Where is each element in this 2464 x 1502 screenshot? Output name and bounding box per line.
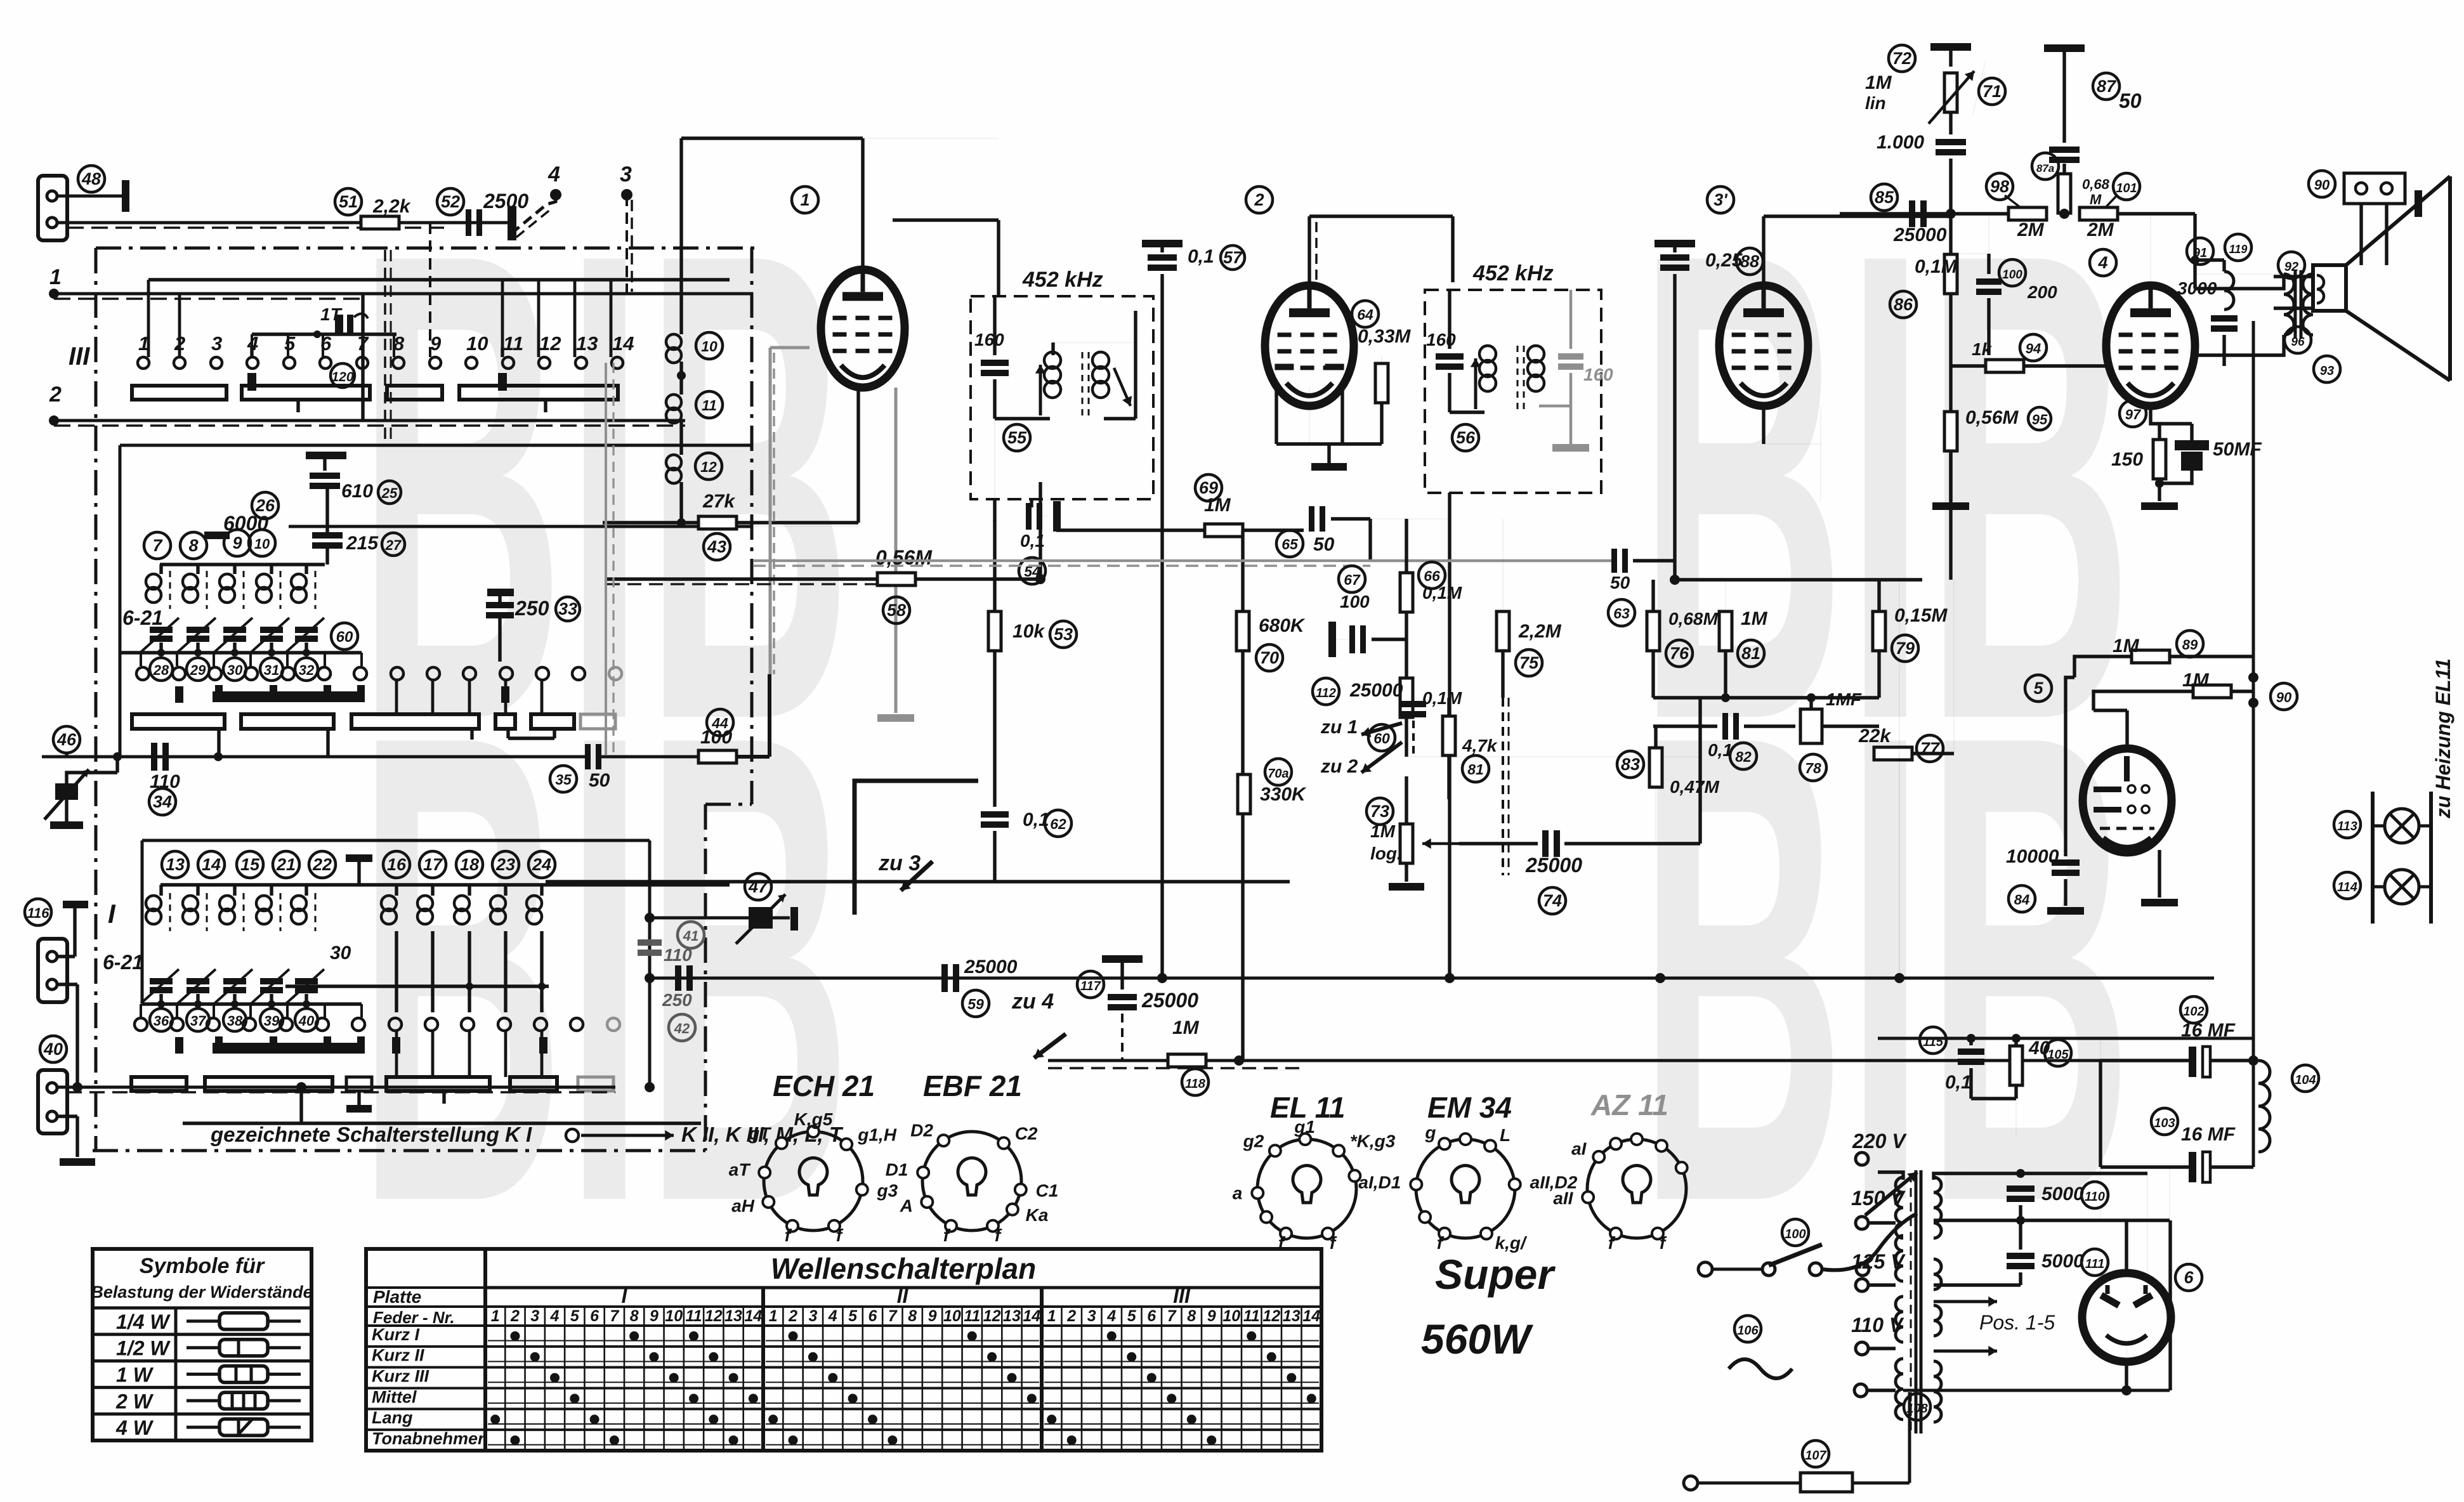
resistor R86 0.1M bbox=[1944, 254, 1957, 294]
svg-text:200: 200 bbox=[2027, 282, 2057, 302]
coil L10 bbox=[270, 565, 273, 574]
svg-text:6-21: 6-21 bbox=[103, 951, 143, 974]
coil L13 bbox=[159, 885, 162, 896]
wire bbox=[2118, 212, 2195, 215]
resistor R64 0.33M bbox=[1375, 363, 1388, 403]
svg-text:65: 65 bbox=[1281, 536, 1299, 552]
svg-text:30: 30 bbox=[227, 662, 243, 678]
wire bbox=[1840, 212, 2010, 215]
tube3 cathode network bbox=[1820, 406, 1821, 501]
dashed wire bbox=[1502, 698, 1504, 875]
node 4 bbox=[550, 189, 561, 200]
svg-text:II: II bbox=[897, 1284, 909, 1307]
svg-text:1: 1 bbox=[769, 1307, 778, 1325]
wire bbox=[863, 138, 999, 139]
antenna terminal bbox=[122, 180, 129, 212]
svg-text:56: 56 bbox=[1456, 428, 1476, 447]
gray wire (dial cord area) bbox=[753, 559, 1370, 562]
wire bbox=[1331, 517, 1370, 520]
svg-text:106: 106 bbox=[1737, 1324, 1759, 1338]
small tee bbox=[346, 1077, 372, 1091]
coil bus II bbox=[160, 563, 325, 566]
svg-text:40: 40 bbox=[298, 1013, 315, 1029]
coil L8 bbox=[196, 565, 199, 574]
contact blade marks bbox=[247, 373, 256, 391]
padder capacitor C35 50 bbox=[585, 744, 591, 769]
svg-text:a: a bbox=[1233, 1183, 1243, 1203]
capacitor C62 0.1 bbox=[981, 811, 1009, 818]
svg-text:14: 14 bbox=[1023, 1307, 1040, 1325]
coil L11 bbox=[305, 565, 308, 574]
svg-text:90: 90 bbox=[2276, 689, 2292, 705]
svg-text:93: 93 bbox=[2320, 364, 2334, 378]
contact trace row Kurz I group 1 bbox=[488, 1340, 761, 1342]
contact trace row Kurz III group 1 bbox=[488, 1381, 761, 1383]
capacitor C74 25000 bbox=[1542, 830, 1549, 857]
wire bbox=[2159, 471, 2192, 483]
svg-text:7: 7 bbox=[1167, 1307, 1177, 1325]
wire bbox=[1160, 294, 1163, 978]
svg-text:104: 104 bbox=[2295, 1073, 2316, 1087]
svg-text:12: 12 bbox=[705, 1307, 723, 1325]
grid cap bar bbox=[204, 532, 230, 539]
svg-text:64: 64 bbox=[1357, 306, 1373, 323]
svg-text:15: 15 bbox=[240, 855, 260, 874]
svg-text:105: 105 bbox=[2047, 1048, 2069, 1062]
wire B+ right bbox=[2252, 321, 2255, 1167]
svg-text:2: 2 bbox=[1066, 1307, 1076, 1325]
svg-text:3: 3 bbox=[620, 162, 632, 186]
svg-text:1/4 W: 1/4 W bbox=[116, 1310, 171, 1333]
wire bbox=[183, 1121, 701, 1125]
svg-text:27k: 27k bbox=[702, 491, 735, 512]
svg-text:0,1: 0,1 bbox=[1020, 531, 1045, 551]
svg-text:aI: aI bbox=[1571, 1139, 1587, 1158]
svg-text:73: 73 bbox=[1370, 802, 1389, 821]
resistor R81 1M bbox=[1719, 611, 1732, 651]
capacitor C96 50MF electrolytic bbox=[2175, 440, 2209, 450]
capacitor C103 16MF bbox=[2151, 1108, 2178, 1135]
wire bbox=[737, 521, 858, 524]
svg-text:BIB: BIB bbox=[1638, 596, 2133, 1340]
contact-to-wafer stubs II bbox=[395, 680, 398, 714]
wire bbox=[285, 984, 549, 988]
svg-text:160: 160 bbox=[1583, 365, 1613, 384]
svg-text:220 V: 220 V bbox=[1852, 1130, 1907, 1153]
svg-text:L: L bbox=[1500, 1125, 1511, 1145]
svg-text:9: 9 bbox=[928, 1307, 937, 1325]
svg-text:K,g5: K,g5 bbox=[794, 1109, 833, 1129]
capacitor C87 50 bbox=[2044, 44, 2085, 52]
speaker LS93 bbox=[2274, 275, 2313, 278]
variable capacitor C47 bbox=[745, 873, 771, 900]
svg-text:10: 10 bbox=[466, 332, 488, 355]
IF1 coils bbox=[995, 417, 1050, 420]
svg-text:97: 97 bbox=[2125, 407, 2142, 422]
wire bbox=[1675, 578, 1922, 581]
resistor R60 0.1M bbox=[1400, 678, 1413, 717]
svg-text:5: 5 bbox=[848, 1307, 858, 1325]
svg-text:42: 42 bbox=[674, 1021, 690, 1036]
oscillator coil L12 bbox=[679, 422, 683, 455]
svg-text:2: 2 bbox=[788, 1307, 797, 1325]
svg-text:24: 24 bbox=[532, 855, 551, 874]
svg-text:88: 88 bbox=[1740, 252, 1759, 271]
svg-text:25000: 25000 bbox=[1141, 989, 1198, 1012]
cathode wire bbox=[895, 388, 898, 713]
svg-text:10: 10 bbox=[665, 1307, 683, 1325]
resistor R98 2M bbox=[2009, 207, 2047, 220]
svg-text:74: 74 bbox=[1543, 891, 1562, 910]
switch wafer bars I bbox=[131, 1077, 187, 1091]
contact trace row Lang group 1 bbox=[488, 1423, 761, 1425]
svg-text:9: 9 bbox=[430, 332, 442, 355]
svg-text:9: 9 bbox=[650, 1307, 659, 1325]
svg-text:100: 100 bbox=[1340, 592, 1370, 611]
svg-text:111: 111 bbox=[2085, 1257, 2104, 1271]
svg-text:3: 3 bbox=[530, 1307, 539, 1325]
capacitor C33 250 bbox=[487, 589, 514, 596]
svg-text:5: 5 bbox=[2033, 679, 2043, 698]
rectifier tube V6 AZ11 bbox=[2175, 1264, 2202, 1291]
capacitor C84 10000 bbox=[2052, 859, 2080, 866]
gray AVC wire bbox=[1370, 559, 1615, 563]
svg-text:11: 11 bbox=[1243, 1307, 1260, 1325]
svg-text:gezeichnete Schalterstellung: gezeichnete Schalterstellung K I bbox=[210, 1123, 532, 1146]
svg-text:9: 9 bbox=[232, 533, 242, 552]
svg-text:89: 89 bbox=[2182, 637, 2198, 653]
resistor R66 0.1M bbox=[1400, 573, 1413, 612]
svg-text:4 W: 4 W bbox=[115, 1416, 154, 1439]
svg-text:16: 16 bbox=[387, 855, 407, 874]
svg-text:1 W: 1 W bbox=[116, 1364, 154, 1387]
capacitor C57 0.1 bbox=[1142, 240, 1183, 247]
svg-text:250: 250 bbox=[662, 990, 692, 1010]
svg-text:9: 9 bbox=[1207, 1307, 1216, 1325]
contact trace row Mittel group 2 bbox=[766, 1402, 1039, 1404]
svg-text:12: 12 bbox=[539, 332, 561, 355]
socket AZ11 bbox=[1587, 1139, 1686, 1238]
IF2 right cap 160 bbox=[1558, 353, 1583, 360]
svg-text:53: 53 bbox=[1054, 625, 1073, 644]
svg-text:67: 67 bbox=[1344, 571, 1361, 588]
svg-text:A: A bbox=[900, 1196, 913, 1216]
contact trace row Tonabnehmer group 2 bbox=[766, 1444, 1039, 1446]
svg-text:82: 82 bbox=[1735, 748, 1752, 765]
wire bbox=[546, 880, 1290, 883]
svg-text:1M: 1M bbox=[1370, 821, 1396, 841]
legend table Symbole bbox=[93, 1249, 311, 1440]
svg-text:8: 8 bbox=[188, 536, 198, 555]
svg-text:ECH 21: ECH 21 bbox=[773, 1069, 875, 1102]
svg-text:0,1M: 0,1M bbox=[1915, 256, 1958, 277]
svg-text:250: 250 bbox=[514, 597, 549, 620]
oscillator coil L11 bbox=[679, 362, 683, 395]
output transformer T92 bbox=[2284, 274, 2294, 335]
capacitor C85 25000 bbox=[1909, 200, 1915, 227]
svg-text:0,1: 0,1 bbox=[1188, 246, 1214, 267]
variable capacitor (tuning) bbox=[115, 757, 119, 773]
bus wire bbox=[1048, 1059, 2100, 1062]
svg-text:50: 50 bbox=[1610, 573, 1630, 592]
capacitor C112 25000 (gray) bbox=[1313, 678, 1339, 705]
svg-text:13: 13 bbox=[166, 855, 185, 874]
capacitor C100 200 bbox=[1988, 214, 1989, 273]
capacitor C88 0.25 bbox=[1655, 240, 1695, 247]
svg-text:62: 62 bbox=[1050, 816, 1066, 832]
resistor R95 0.56M bbox=[1944, 412, 1957, 451]
svg-text:1/2 W: 1/2 W bbox=[116, 1337, 171, 1360]
svg-text:1M: 1M bbox=[2113, 636, 2140, 656]
node 116 bbox=[25, 899, 51, 925]
svg-text:110: 110 bbox=[2085, 1190, 2105, 1204]
wire bbox=[1309, 214, 1453, 218]
svg-text:72: 72 bbox=[1892, 49, 1911, 68]
wire bbox=[65, 753, 68, 757]
coil L18 bbox=[468, 885, 471, 896]
svg-text:Symbole für: Symbole für bbox=[140, 1254, 265, 1278]
coil bus I bbox=[161, 883, 730, 886]
svg-text:48: 48 bbox=[81, 169, 101, 188]
capacitor C59 25000 bbox=[941, 964, 948, 992]
svg-text:Belastung der Widerstände: Belastung der Widerstände bbox=[91, 1283, 312, 1302]
bus wire bbox=[650, 977, 2214, 980]
svg-text:46: 46 bbox=[56, 730, 77, 749]
node 40 bbox=[40, 1036, 67, 1062]
svg-text:0,1M: 0,1M bbox=[1422, 688, 1462, 708]
svg-text:Tonabnehmer: Tonabnehmer bbox=[372, 1429, 485, 1448]
resistor R44 100 bbox=[707, 709, 733, 736]
svg-text:32: 32 bbox=[299, 662, 315, 678]
svg-text:560W: 560W bbox=[1421, 1316, 1533, 1362]
svg-text:2M: 2M bbox=[2087, 219, 2114, 240]
svg-text:Wellenschalterplan: Wellenschalterplan bbox=[771, 1252, 1036, 1285]
svg-text:100: 100 bbox=[2002, 268, 2022, 282]
capacitor C91 3000 bbox=[2211, 315, 2238, 322]
svg-text:101: 101 bbox=[2116, 181, 2137, 195]
IF2 coils bbox=[1450, 410, 1484, 414]
contact trace row Lang group 2 bbox=[766, 1423, 1039, 1425]
svg-text:95: 95 bbox=[2032, 412, 2048, 428]
svg-text:75: 75 bbox=[1519, 653, 1539, 672]
svg-text:EBF 21: EBF 21 bbox=[923, 1069, 1022, 1102]
section I labels bbox=[162, 851, 188, 878]
svg-text:102: 102 bbox=[2183, 1005, 2204, 1019]
capacitor C67 100 bbox=[1328, 622, 1336, 657]
svg-text:81: 81 bbox=[1741, 644, 1760, 663]
svg-text:0,33M: 0,33M bbox=[1358, 326, 1411, 347]
resistor R105 40 bbox=[2010, 1046, 2022, 1085]
section II box bbox=[120, 444, 753, 447]
resistor R83 0.47M bbox=[1649, 748, 1662, 787]
resistor R76 0.68M bbox=[1647, 611, 1660, 651]
svg-text:76: 76 bbox=[1670, 644, 1689, 663]
wire bbox=[1934, 1218, 2170, 1222]
svg-text:zu Heizung EL11: zu Heizung EL11 bbox=[2432, 658, 2454, 819]
svg-text:51: 51 bbox=[339, 192, 358, 211]
wire bbox=[626, 195, 628, 294]
table Wellenschalterplan bbox=[366, 1249, 1321, 1451]
contact blade II bbox=[175, 686, 183, 703]
resistor R94 1k bbox=[1986, 360, 2024, 372]
lamp 113 bbox=[2371, 792, 2375, 924]
svg-text:g: g bbox=[1424, 1123, 1436, 1142]
svg-text:43: 43 bbox=[707, 537, 726, 556]
svg-text:Kurz I: Kurz I bbox=[372, 1325, 420, 1344]
wire bbox=[2359, 204, 2362, 265]
svg-text:81: 81 bbox=[1467, 761, 1484, 778]
svg-text:13: 13 bbox=[1003, 1307, 1021, 1325]
coil L16 bbox=[395, 885, 398, 896]
wire bbox=[1934, 1172, 1960, 1180]
section I box bbox=[142, 839, 650, 842]
svg-text:*K,g3: *K,g3 bbox=[1350, 1131, 1396, 1151]
wire tonabnehmer bus bbox=[72, 1082, 82, 1092]
svg-text:2,2M: 2,2M bbox=[1518, 621, 1562, 642]
svg-text:0,1: 0,1 bbox=[1945, 1072, 1972, 1093]
contact trace row Mittel group 1 bbox=[488, 1402, 761, 1404]
resistor R97 150 bbox=[2153, 440, 2166, 479]
svg-text:60: 60 bbox=[1373, 730, 1390, 747]
oscillator coil L10 bbox=[679, 138, 683, 334]
trimmer capacitor C40 bbox=[295, 978, 318, 984]
svg-text:0,56M: 0,56M bbox=[1965, 407, 2019, 428]
wire bbox=[2120, 400, 2146, 427]
contact trace row Kurz I group 2 bbox=[766, 1340, 1039, 1342]
svg-text:AZ 11: AZ 11 bbox=[1590, 1088, 1668, 1121]
capacitor C115 0.1 bbox=[1920, 1027, 1946, 1054]
section II contacts bbox=[136, 667, 149, 680]
svg-text:23: 23 bbox=[495, 855, 515, 874]
svg-text:0,56M: 0,56M bbox=[875, 546, 933, 569]
svg-text:zu 1: zu 1 bbox=[1320, 717, 1358, 738]
cathode bbox=[1309, 406, 1310, 444]
svg-text:50: 50 bbox=[589, 770, 610, 791]
svg-text:1: 1 bbox=[800, 190, 809, 209]
wire bbox=[993, 651, 996, 807]
svg-text:119: 119 bbox=[2229, 243, 2248, 256]
svg-text:27: 27 bbox=[385, 537, 402, 553]
coil-unit bottom bus I bbox=[142, 1002, 362, 1005]
svg-text:11: 11 bbox=[964, 1307, 980, 1325]
svg-text:25000: 25000 bbox=[1893, 225, 1947, 245]
svg-text:100: 100 bbox=[1785, 1227, 1805, 1241]
svg-text:Ka: Ka bbox=[1026, 1205, 1049, 1225]
svg-text:16 MF: 16 MF bbox=[2181, 1124, 2236, 1145]
svg-text:C2: C2 bbox=[1015, 1123, 1038, 1143]
svg-text:2: 2 bbox=[1254, 190, 1264, 209]
anode choke L119 bbox=[2224, 271, 2234, 310]
svg-text:1M: 1M bbox=[1865, 72, 1892, 93]
capacitor C82 0.1 bbox=[1722, 713, 1728, 740]
resistor R118 1M bbox=[1168, 1054, 1206, 1067]
svg-text:g3: g3 bbox=[877, 1181, 898, 1201]
svg-text:28: 28 bbox=[153, 662, 169, 678]
resistor R79 0.15M bbox=[1873, 611, 1885, 651]
svg-text:3: 3 bbox=[808, 1307, 817, 1325]
coil L17 bbox=[431, 885, 434, 896]
wire AVC bbox=[606, 577, 879, 580]
trimmer capacitor C29 bbox=[187, 627, 209, 633]
svg-text:50: 50 bbox=[2119, 89, 2142, 112]
transformer 1T bbox=[252, 332, 396, 336]
wire bbox=[1051, 343, 1054, 355]
tube V1 ECH21 bbox=[792, 186, 818, 213]
svg-text:zu 3: zu 3 bbox=[878, 851, 921, 875]
svg-text:70a: 70a bbox=[1268, 767, 1288, 781]
svg-text:22: 22 bbox=[312, 855, 332, 874]
svg-text:5000: 5000 bbox=[2041, 1251, 2084, 1272]
svg-text:25000: 25000 bbox=[1349, 680, 1403, 701]
svg-text:1M: 1M bbox=[2182, 670, 2210, 691]
svg-text:2M: 2M bbox=[2017, 219, 2045, 240]
svg-text:6: 6 bbox=[590, 1307, 600, 1325]
svg-text:14: 14 bbox=[1302, 1307, 1320, 1325]
wire bbox=[1406, 756, 1700, 757]
svg-text:4,7k: 4,7k bbox=[1462, 736, 1498, 755]
trimmer capacitor C32 bbox=[295, 627, 318, 633]
svg-text:86: 86 bbox=[1894, 295, 1913, 314]
padder capacitor C41 110 (gray) bbox=[638, 939, 662, 946]
svg-text:zu 2: zu 2 bbox=[1320, 756, 1358, 777]
svg-text:Kurz II: Kurz II bbox=[372, 1346, 424, 1365]
trimmer capacitor C39 bbox=[260, 978, 283, 984]
capacitor C110 5000 bbox=[2007, 1185, 2035, 1192]
wire bbox=[57, 195, 124, 198]
svg-text:4: 4 bbox=[550, 1307, 560, 1325]
svg-text:g2: g2 bbox=[1243, 1131, 1264, 1151]
svg-text:aT: aT bbox=[729, 1159, 752, 1179]
svg-text:55: 55 bbox=[1007, 428, 1027, 447]
coil L15 bbox=[233, 885, 236, 896]
svg-text:6-21: 6-21 bbox=[122, 606, 163, 629]
svg-text:lin: lin bbox=[1865, 93, 1886, 113]
trimmer capacitor C31 bbox=[260, 627, 283, 633]
svg-text:zu 4: zu 4 bbox=[1011, 989, 1054, 1014]
svg-text:116: 116 bbox=[27, 905, 49, 921]
IF1 right cap bbox=[1134, 311, 1137, 419]
wire bbox=[915, 577, 1040, 580]
svg-text:1: 1 bbox=[491, 1307, 500, 1325]
capacitor C111 5000 bbox=[2007, 1253, 2035, 1259]
svg-text:14: 14 bbox=[202, 855, 221, 874]
svg-text:8: 8 bbox=[630, 1307, 639, 1325]
wire bbox=[603, 521, 700, 524]
potentiometer R72 1M lin bbox=[1930, 43, 1971, 51]
tube V5 EM34 bbox=[2025, 675, 2052, 702]
resistor R53 10k bbox=[988, 611, 1001, 651]
svg-text:83: 83 bbox=[1621, 755, 1640, 774]
junction bbox=[214, 752, 223, 761]
svg-text:0,1M: 0,1M bbox=[1422, 583, 1462, 603]
resistor R69 1M bbox=[1205, 524, 1243, 537]
svg-text:g1,H: g1,H bbox=[857, 1125, 896, 1145]
wafer stubs bbox=[217, 729, 220, 757]
resistor R101 2M bbox=[2080, 207, 2118, 220]
svg-text:7: 7 bbox=[888, 1307, 898, 1325]
svg-text:680K: 680K bbox=[1259, 615, 1306, 636]
svg-text:115: 115 bbox=[1923, 1035, 1944, 1049]
svg-text:35: 35 bbox=[555, 771, 572, 788]
svg-text:100: 100 bbox=[700, 727, 732, 748]
svg-text:C1: C1 bbox=[1036, 1181, 1059, 1201]
wire bbox=[57, 221, 511, 225]
svg-text:14: 14 bbox=[612, 332, 634, 355]
coil L20 bbox=[540, 885, 543, 896]
svg-text:aI,D1: aI,D1 bbox=[1358, 1173, 1401, 1192]
svg-text:117: 117 bbox=[1080, 979, 1101, 993]
capacitor C54 0.1 bbox=[1026, 503, 1032, 530]
